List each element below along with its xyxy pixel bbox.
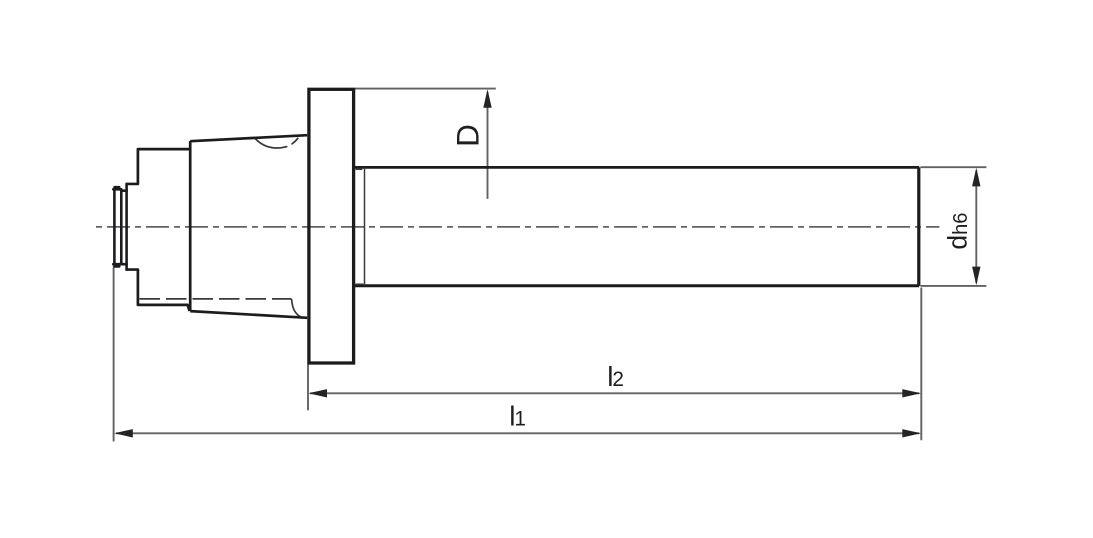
svg-text:l1: l1	[509, 401, 526, 432]
svg-text:D: D	[450, 124, 486, 147]
svg-text:dh6: dh6	[943, 213, 973, 250]
svg-text:l2: l2	[607, 361, 624, 392]
